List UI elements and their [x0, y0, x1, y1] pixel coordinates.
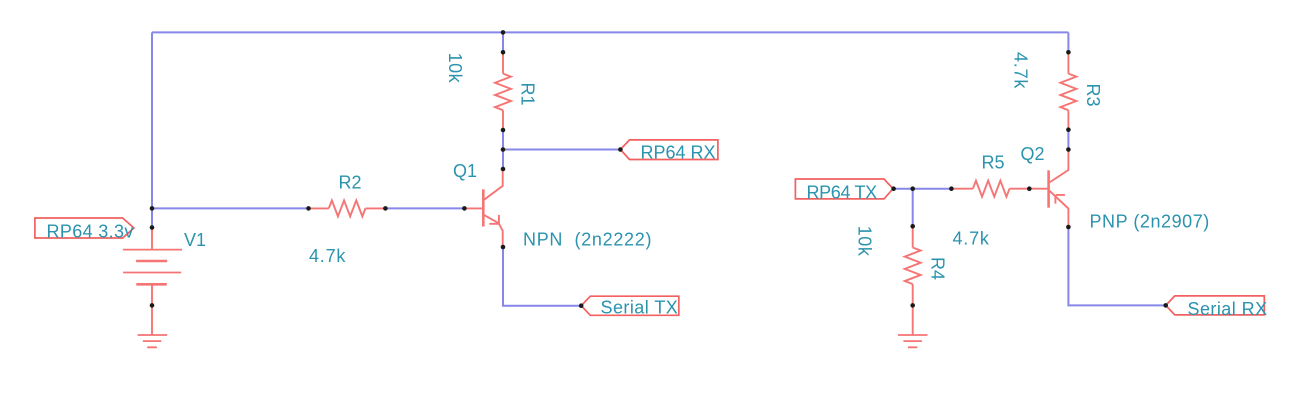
svg-text:10k: 10k: [855, 226, 875, 257]
svg-text:4.7k: 4.7k: [953, 229, 990, 249]
svg-text:R2: R2: [339, 173, 362, 193]
svg-text:V1: V1: [184, 230, 206, 250]
svg-text:4.7k: 4.7k: [309, 246, 346, 266]
svg-text:RP64 RX: RP64 RX: [641, 143, 716, 163]
svg-text:Q1: Q1: [453, 161, 477, 181]
svg-text:Serial TX: Serial TX: [601, 298, 679, 318]
svg-text:RP64 3.3v: RP64 3.3v: [47, 222, 134, 242]
svg-text:Serial RX: Serial RX: [1188, 299, 1268, 319]
svg-text:NPN (2n2222): NPN (2n2222): [523, 230, 652, 250]
svg-text:10k: 10k: [445, 53, 465, 84]
svg-text:R5: R5: [982, 153, 1005, 173]
svg-text:Q2: Q2: [1021, 144, 1045, 164]
svg-text:R4: R4: [928, 257, 948, 280]
svg-text:R3: R3: [1083, 84, 1103, 107]
svg-text:4.7k: 4.7k: [1011, 52, 1031, 89]
svg-text:PNP (2n2907): PNP (2n2907): [1090, 211, 1210, 231]
svg-text:R1: R1: [518, 83, 538, 106]
svg-text:RP64 TX: RP64 TX: [807, 182, 878, 202]
